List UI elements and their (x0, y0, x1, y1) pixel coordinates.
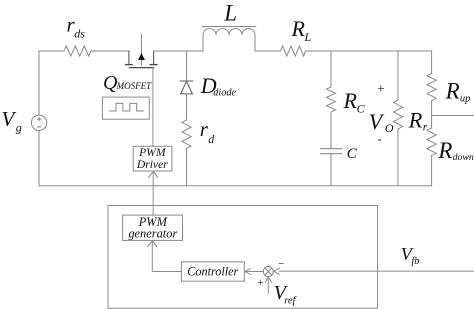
summing junction X (265, 268, 272, 275)
wire R_up branch top (431, 51, 433, 74)
box control loop outer (108, 206, 378, 309)
wire between R_up and R_down (431, 101, 433, 129)
wire diode branch top (186, 51, 188, 81)
inductor L right riser (254, 35, 256, 51)
arrowhead up into PWM generator (148, 241, 157, 247)
arrowhead up into PWM Driver (149, 171, 158, 177)
svg-text:ref: ref (284, 296, 297, 307)
svg-text:+: + (257, 277, 265, 289)
box PWM generator (123, 215, 183, 240)
svg-text:−: − (277, 258, 284, 270)
svg-text:R: R (343, 88, 358, 113)
wire R_r branch top (397, 51, 399, 100)
wire bottom rail (39, 185, 432, 187)
wire summing junction to controller (250, 271, 263, 273)
wire top-left horizontal from corner to r_ds (39, 50, 64, 52)
resistor R_C (326, 87, 335, 112)
svg-text:V: V (2, 107, 17, 131)
wire capacitor to rail (330, 154, 332, 186)
svg-text:R: R (437, 138, 452, 163)
inductor L arcs (203, 29, 255, 36)
arrowhead up into summing junction (V_ref) (265, 277, 271, 282)
svg-text:Driver: Driver (136, 158, 168, 171)
wire left vertical upper (Vg to top) (38, 51, 40, 115)
wire R_L to top-right corner (306, 50, 432, 52)
summing junction circle (263, 267, 273, 277)
transistor Q1 Q_MOSFET source terminal (128, 51, 130, 65)
svg-text:L: L (223, 0, 237, 25)
wire inductor to R_L (255, 50, 281, 52)
source V_g plus (38, 118, 41, 121)
resistor R_r (393, 100, 402, 129)
box PWM Driver (133, 146, 172, 171)
box Controller (181, 262, 244, 281)
resistor R_down (427, 128, 436, 156)
svg-text:diode: diode (213, 88, 236, 99)
svg-text:g: g (16, 121, 22, 135)
svg-text:R: R (408, 108, 423, 133)
svg-text:Controller: Controller (187, 264, 238, 278)
svg-text:generator: generator (128, 226, 177, 240)
svg-text:up: up (460, 94, 471, 105)
svg-text:fb: fb (411, 256, 419, 267)
wire R_C branch top (330, 51, 332, 87)
wire left vertical lower (Vg to rail) (38, 131, 40, 186)
svg-text:+: + (376, 81, 385, 96)
svg-text:R: R (291, 16, 306, 41)
svg-text:R: R (445, 78, 460, 103)
svg-text:-: - (377, 131, 381, 146)
pulse waveform (110, 103, 144, 111)
svg-text:d: d (208, 132, 215, 146)
resistor R_L (281, 46, 306, 56)
pulse box outline (102, 97, 149, 119)
wire r_ds to MOSFET source (91, 50, 129, 52)
svg-text:C: C (357, 101, 366, 115)
wire MOSFET gate line down to driver (152, 68, 154, 147)
svg-text:O: O (385, 121, 394, 135)
transistor Q1 channel bar (129, 67, 153, 69)
wire R_down to rail (431, 156, 433, 186)
transistor Q1 body arrow head (138, 53, 145, 60)
wire diode to r_d (186, 94, 188, 120)
diode D_diode cathode bar (180, 80, 193, 82)
wire controller to PWM generator (152, 240, 181, 271)
inductor L top bar (203, 26, 256, 28)
svg-text:L: L (304, 30, 312, 44)
capacitor C plates (321, 148, 342, 150)
wire MOSFET drain to inductor (154, 50, 203, 52)
arrowhead left into summing junction (274, 268, 279, 274)
svg-text:ds: ds (74, 27, 85, 41)
transistor Q1 drain terminal (153, 51, 155, 65)
transistor Q1 body arrow stem (141, 35, 143, 66)
resistor r_d (182, 120, 191, 149)
wire R_C to capacitor (330, 112, 332, 148)
source V_g circle (31, 115, 46, 130)
svg-text:MOSFET: MOSFET (116, 81, 152, 91)
inductor L left riser (202, 35, 204, 51)
resistor R1 r_ds (64, 46, 91, 56)
wire R_r to rail (397, 129, 399, 186)
wire divider tap to right edge (432, 115, 474, 117)
wire driver to generator vertical (152, 171, 154, 215)
wire feedback from right edge (279, 270, 474, 272)
diode D_diode triangle (181, 81, 193, 94)
wire r_d to rail (186, 149, 188, 186)
resistor R_up (427, 74, 436, 101)
arrowhead left into Controller (245, 269, 251, 275)
wire V_ref vertical (267, 277, 269, 293)
svg-text:r: r (423, 121, 428, 133)
source V_g minus (38, 126, 41, 128)
svg-text:C: C (347, 146, 358, 162)
svg-text:V: V (369, 109, 385, 134)
svg-text:down: down (453, 152, 474, 163)
